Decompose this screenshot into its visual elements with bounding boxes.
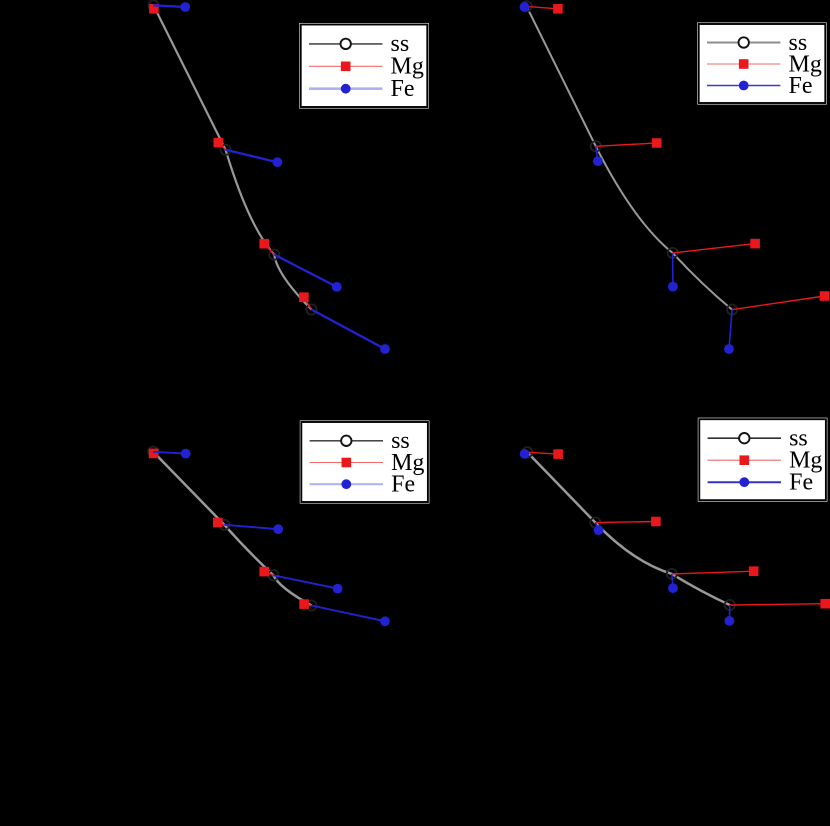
- node BR-Mg1 : red square marker: [553, 449, 563, 459]
- node TR-Fe3 : blue circle marker: [668, 282, 678, 292]
- node TR-ss3 : black open circle marker: [668, 248, 678, 258]
- wire : BR Mg tie-line 4: [730, 604, 825, 605]
- wire : TL Mg tie-line 1: [152, 5, 155, 9]
- wire : BR Mg tie-line 3: [672, 571, 754, 574]
- node BR-Fe2 : blue circle marker: [594, 525, 604, 535]
- node BR-ss4 : black open circle marker: [725, 600, 735, 610]
- wire : TR ss solid-solution gray curve: [527, 6, 733, 309]
- wire : BL Mg tie-line 3: [264, 572, 273, 576]
- node TR-ss2 : black open circle marker: [591, 141, 601, 151]
- legend box BR: [698, 418, 828, 502]
- node BR-Fe4 : blue circle marker: [725, 616, 735, 626]
- wire : BL Mg tie-line 4: [304, 604, 311, 605]
- panel TR: [520, 1, 830, 354]
- node TR-Fe1 : blue circle marker: [520, 2, 530, 12]
- wire : TL Mg tie-line 2: [218, 143, 225, 150]
- node TR-Fe4 : blue circle marker: [724, 344, 734, 354]
- node BR-Mg4 : red square marker: [820, 599, 830, 609]
- node TL-Mg4 : red square marker: [299, 292, 309, 302]
- svg-text:Fe: Fe: [391, 472, 415, 498]
- node BR-ss3 : black open circle marker: [667, 569, 677, 579]
- node TR-Mg4 : red square marker: [820, 291, 830, 301]
- node BL-ss2 : black open circle marker: [219, 520, 229, 530]
- wire : BL Fe tie-line 2: [224, 525, 278, 529]
- wire : TR Mg tie-line 2: [596, 143, 657, 146]
- panel BR: [520, 418, 830, 626]
- node TL-ss2 : black open circle marker: [221, 145, 231, 155]
- wire : BR Fe tie-line 2: [595, 523, 598, 531]
- node TL-Fe2 : blue circle marker: [273, 157, 283, 167]
- wire : TR Mg tie-line 1: [527, 6, 558, 8]
- legend box TL: [299, 23, 429, 109]
- wire : BR Fe tie-line 4: [728, 605, 730, 621]
- node TL-Mg1 : red square marker: [149, 4, 159, 14]
- node TL-Fe3 : blue circle marker: [332, 282, 342, 292]
- node BL-Fe2 : blue circle marker: [273, 524, 283, 534]
- node BL-Mg1 : red square marker: [149, 449, 159, 459]
- node TR-Mg2 : red square marker: [652, 138, 662, 148]
- wire : TR Fe tie-line 3: [672, 253, 674, 287]
- wire : TR Fe tie-line 2: [596, 146, 598, 161]
- node TL-ss1 : black open circle marker: [148, 0, 158, 10]
- node BL-ss1 : black open circle marker: [148, 447, 158, 457]
- wire : BL Fe tie-line 4: [312, 606, 386, 622]
- node BR-Fe3 : blue circle marker: [668, 583, 678, 593]
- wire : TR Fe tie-line 4: [729, 310, 732, 349]
- wire : TR Mg tie-line 3: [673, 244, 756, 253]
- node TL-Mg2 : red square marker: [214, 138, 224, 148]
- node BR-Mg3 : red square marker: [749, 566, 759, 576]
- wire : BR Mg tie-line 2: [595, 522, 656, 523]
- node BL-Mg3 : red square marker: [259, 567, 269, 577]
- node BL-Fe4 : blue circle marker: [380, 616, 390, 626]
- node BR-Mg2 : red square marker: [651, 517, 661, 527]
- wire : TL Fe tie-line 2: [226, 150, 278, 162]
- panel TL: [148, 0, 429, 354]
- node TL-Fe4 : blue circle marker: [380, 344, 390, 354]
- wire : BR Fe tie-line 3: [672, 574, 673, 588]
- node TL-Mg3 : red square marker: [259, 239, 269, 249]
- wire : TL Mg tie-line 3: [264, 244, 274, 255]
- wire : TL Fe tie-line 1: [153, 5, 185, 7]
- wire : TR Fe tie-line 1: [525, 5, 527, 8]
- wire : TL ss solid-solution gray curve: [153, 5, 311, 309]
- node BL-ss4 : black open circle marker: [306, 600, 316, 610]
- wire : TL Fe tie-line 3: [274, 255, 337, 287]
- node TL-Fe1 : blue circle marker: [180, 2, 190, 12]
- svg-text:Fe: Fe: [789, 470, 813, 496]
- legend box BL: [300, 421, 430, 504]
- node BR-Fe1 : blue circle marker: [520, 449, 530, 459]
- wire : BR Mg tie-line 1: [527, 452, 558, 454]
- wire : BL Mg tie-line 2: [218, 523, 225, 525]
- wire : BR ss solid-solution gray curve: [527, 452, 730, 605]
- wire : BR Fe tie-line 1: [525, 452, 528, 454]
- node TL-ss4 : black open circle marker: [306, 304, 316, 314]
- node BL-Fe1 : blue circle marker: [181, 449, 191, 459]
- node TR-ss4 : black open circle marker: [727, 305, 737, 315]
- wire : TL Mg tie-line 4: [304, 297, 312, 309]
- node TR-Mg1 : red square marker: [553, 4, 563, 14]
- node BL-Fe3 : blue circle marker: [333, 584, 343, 594]
- wire : BL Fe tie-line 1: [153, 452, 186, 454]
- legend box TR: [697, 23, 827, 105]
- wire : BL Mg tie-line 1: [152, 452, 154, 454]
- node TR-ss1 : black open circle marker: [522, 1, 532, 11]
- node TL-ss3 : black open circle marker: [269, 250, 279, 260]
- panel BL: [148, 421, 429, 627]
- node BL-Mg4 : red square marker: [299, 599, 309, 609]
- node BR-ss2 : black open circle marker: [590, 518, 600, 528]
- svg-text:Fe: Fe: [789, 73, 813, 99]
- wire : TR Mg tie-line 4: [732, 296, 824, 310]
- wire : TL Fe tie-line 4: [312, 310, 386, 350]
- node TR-Fe2 : blue circle marker: [593, 156, 603, 166]
- wire : BL ss solid-solution gray curve: [153, 452, 311, 606]
- node BL-Mg2 : red square marker: [213, 518, 223, 528]
- wire : BL Fe tie-line 3: [273, 575, 337, 588]
- svg-text:Fe: Fe: [391, 76, 415, 102]
- node BR-ss1 : black open circle marker: [522, 447, 532, 457]
- node TR-Mg3 : red square marker: [750, 239, 760, 249]
- node BL-ss3 : black open circle marker: [268, 570, 278, 580]
